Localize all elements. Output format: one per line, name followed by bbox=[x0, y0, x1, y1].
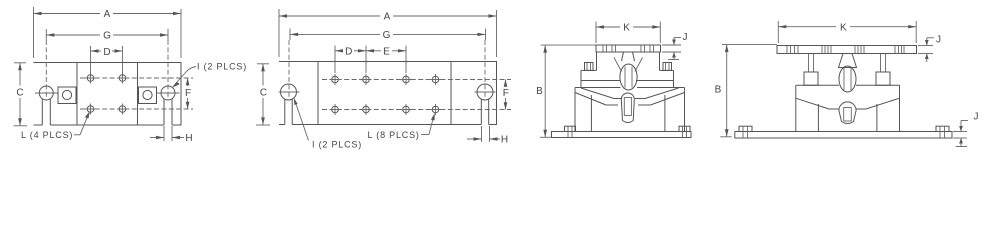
keyhole slot right (view 2) bbox=[475, 40, 496, 125]
note I (2 PLCS) leader (view 1) bbox=[172, 62, 247, 88]
centerline hole row bottom (view 1) bbox=[80, 108, 193, 110]
dimension H (view 2) bbox=[467, 126, 508, 145]
dimension K (view 3) bbox=[596, 22, 660, 44]
svg-text:G: G bbox=[103, 31, 111, 42]
dimension C (view 2) bbox=[256, 64, 270, 125]
note L (4 PLCS) leader (view 1) bbox=[21, 111, 90, 140]
dimension J (view 3, plate thickness) bbox=[662, 32, 688, 59]
bolt pad right (view 3) bbox=[663, 63, 672, 71]
svg-text:J: J bbox=[974, 112, 979, 123]
hole top-left (view 1) bbox=[85, 73, 96, 84]
stud pair right (view 4) bbox=[876, 54, 890, 86]
divider line left (view 2) bbox=[317, 62, 319, 125]
hole row top (view 2) : 4 holes bbox=[330, 74, 442, 85]
svg-text:H: H bbox=[501, 134, 508, 145]
svg-text:I (2 PLCS): I (2 PLCS) bbox=[197, 62, 247, 72]
centerline hole row top (view 2) bbox=[322, 79, 511, 81]
svg-text:K: K bbox=[623, 23, 630, 34]
dimension C (view 1) bbox=[14, 63, 28, 126]
saddle diagonals (view 4) bbox=[796, 98, 900, 109]
dimension E (view 2) bbox=[366, 46, 406, 74]
svg-text:L (4 PLCS): L (4 PLCS) bbox=[21, 130, 73, 140]
svg-text:B: B bbox=[536, 86, 543, 97]
terminal square left (view 1) bbox=[58, 87, 76, 104]
dimension B (view 3) bbox=[536, 45, 596, 137]
shoulder ledge (view 3) bbox=[581, 69, 597, 71]
dimension J top (view 4, plate thickness) bbox=[918, 35, 941, 63]
svg-text:C: C bbox=[16, 87, 23, 98]
divider line right (view 2) bbox=[450, 62, 452, 125]
hole top-right (view 1) bbox=[117, 73, 128, 84]
svg-text:A: A bbox=[384, 12, 391, 23]
dimension G (view 2) bbox=[290, 29, 486, 42]
svg-text:K: K bbox=[840, 22, 847, 33]
svg-text:C: C bbox=[260, 88, 267, 99]
svg-text:G: G bbox=[383, 30, 391, 41]
top clamp plate (view 4) bbox=[777, 46, 917, 54]
dimension B (view 4) bbox=[715, 45, 777, 137]
stud pair left (view 4) bbox=[804, 54, 818, 86]
dimension J bottom (view 4, flange thickness) bbox=[953, 112, 979, 147]
dimension K (view 4) bbox=[778, 21, 916, 43]
dimension F (view 2) bbox=[503, 80, 509, 110]
bottom flange (view 3) bbox=[552, 126, 692, 137]
dimension F (view 1) bbox=[185, 78, 191, 109]
hole bottom-left (view 1) bbox=[85, 104, 96, 115]
bottom flange (view 4) bbox=[735, 126, 952, 138]
keyhole slot left (view 2) bbox=[279, 40, 300, 125]
dimension D (view 1) bbox=[91, 46, 123, 73]
dimension H (view 1) bbox=[150, 126, 193, 144]
center pedestal neck (view 4) bbox=[839, 54, 857, 93]
svg-text:F: F bbox=[503, 88, 509, 99]
keyhole slot right (view 1) bbox=[157, 40, 180, 125]
dimension A (view 2) bbox=[279, 9, 497, 57]
center stud and oval link (view 3) bbox=[614, 52, 643, 90]
lower insulator teardrop (view 3) bbox=[621, 93, 634, 123]
divider line right (view 1) bbox=[137, 63, 139, 126]
svg-text:A: A bbox=[104, 9, 111, 20]
svg-text:J: J bbox=[936, 35, 941, 46]
hole row bottom (view 2) : 4 holes bbox=[330, 104, 442, 115]
upper body block (view 3) bbox=[581, 52, 674, 81]
dimension D (view 2) bbox=[335, 46, 366, 74]
svg-text:D: D bbox=[345, 47, 352, 58]
svg-text:E: E bbox=[383, 47, 390, 58]
dimension A (view 1) bbox=[34, 7, 182, 58]
note I (2 PLCS) leader (view 2) bbox=[294, 98, 362, 150]
svg-text:H: H bbox=[185, 133, 192, 144]
saddle diagonals (view 3) bbox=[575, 88, 685, 105]
top clamp plate (view 3) bbox=[596, 45, 661, 52]
divider line left (view 1) bbox=[76, 63, 78, 126]
note L (8 PLCS) leader (view 2) bbox=[368, 113, 435, 140]
centerline hole row bottom (view 2) bbox=[322, 109, 511, 111]
main body block (view 4) bbox=[796, 85, 900, 131]
lower insulator teardrop (view 4) bbox=[839, 102, 856, 124]
svg-text:D: D bbox=[103, 47, 110, 58]
svg-text:B: B bbox=[715, 84, 722, 95]
svg-text:L (8 PLCS): L (8 PLCS) bbox=[368, 130, 420, 140]
keyhole slot left (view 1) bbox=[35, 40, 59, 125]
plate outline (view 2) bbox=[279, 62, 497, 125]
dimension G (view 1) bbox=[46, 29, 168, 42]
inner support lines (view 3) bbox=[591, 95, 665, 132]
mid body sides (view 3) bbox=[581, 70, 674, 87]
inner support lines (view 4) bbox=[818, 104, 877, 132]
centerline hole row top (view 1) bbox=[80, 77, 193, 79]
base block (view 3) bbox=[575, 88, 685, 132]
terminal square right (view 1) bbox=[139, 87, 157, 104]
plate outline (view 1) bbox=[34, 63, 182, 126]
bolt pad left (view 3) bbox=[585, 63, 594, 71]
hole bottom-right (view 1) bbox=[117, 104, 128, 115]
svg-text:I (2 PLCS): I (2 PLCS) bbox=[312, 139, 362, 149]
svg-text:F: F bbox=[185, 88, 191, 99]
svg-text:J: J bbox=[683, 32, 688, 43]
